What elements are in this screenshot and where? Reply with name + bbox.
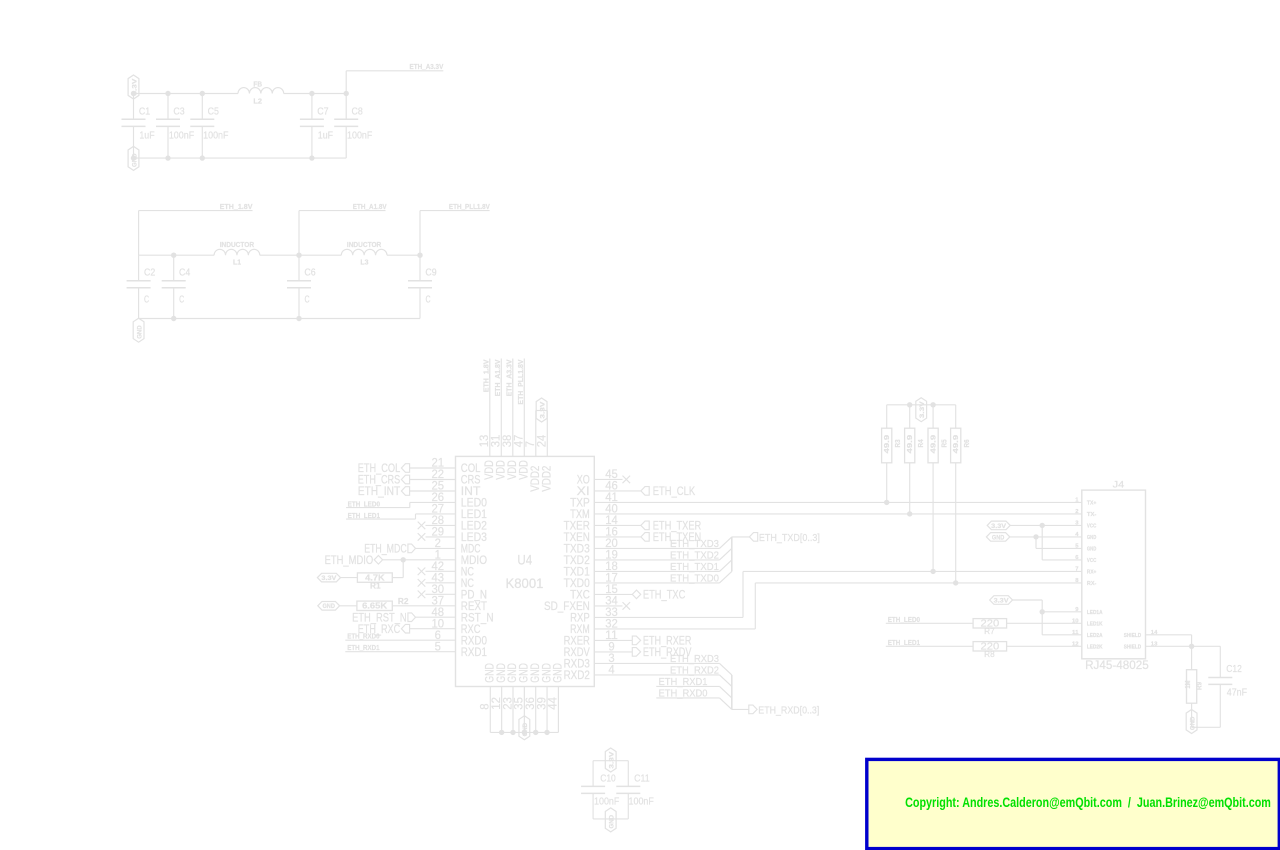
svg-text:49.9: 49.9 [905,435,914,454]
svg-text:3.3V: 3.3V [991,523,1007,530]
svg-text:ETH_RXD1: ETH_RXD1 [659,676,708,688]
junction dot C5 top [200,91,205,96]
svg-text:GND: GND [519,663,531,683]
resistor R5 49.9 (vertical) [932,405,934,428]
wire ETH_1.8V stub [139,210,253,212]
junction dot C3 top [165,91,170,96]
capacitor C12 47nF [1208,677,1232,679]
svg-text:ETH_RXER: ETH_RXER [643,636,692,648]
svg-text:R3: R3 [893,439,902,447]
junction dot C8 top [344,91,349,96]
junction dot rail R5 [930,402,935,407]
svg-text:C5: C5 [208,106,219,118]
svg-text:TXD3: TXD3 [564,544,590,556]
wire 3.3V flag to R1 [341,577,358,579]
junction dot VCC branch [1040,523,1045,528]
svg-text:COL: COL [461,463,481,475]
wire ETH_RXD0 with local label and bus entry [656,697,719,699]
junction dot C5 bottom [200,155,205,160]
svg-text:ETH_RXD0: ETH_RXD0 [347,632,379,641]
svg-text:LED2A: LED2A [1087,633,1103,639]
svg-text:INT: INT [461,486,481,498]
svg-text:GND: GND [530,663,542,683]
svg-text:49.9: 49.9 [929,435,938,454]
local label ETH_LED0 wire [886,622,973,624]
svg-text:ETH_RXD1: ETH_RXD1 [347,643,379,652]
wire R8 to J4 pin12 LED2K [1007,645,1082,647]
capacitor C3 100nF [167,94,169,120]
svg-text:TX-: TX- [1087,512,1097,518]
junction dot R4 to TXM [907,511,912,516]
wire GND flag to R2 [340,605,357,607]
svg-text:49.9: 49.9 [951,435,960,454]
bus ETH_RXD vertical segment [731,675,733,710]
svg-text:GND: GND [507,663,519,683]
wire bottom rail filter2 [139,318,420,320]
svg-text:100nF: 100nF [347,129,372,141]
junction dot MDIO to R1 [401,557,406,562]
svg-text:VDD: VDD [507,460,519,480]
power flag 3.3V at J4 LED anodes [990,596,1013,605]
svg-text:47nF: 47nF [1227,686,1247,698]
connector J4 RJ45-48025 body [1082,490,1146,659]
svg-text:RXDV: RXDV [564,647,590,659]
wire GND to J4 pin4 [1010,536,1082,538]
svg-text:J4: J4 [1113,479,1125,489]
svg-text:RJ45-48025: RJ45-48025 [1085,660,1149,672]
capacitor C4 value C [173,255,175,281]
svg-text:RXC: RXC [461,624,481,636]
svg-text:ETH_MDIO: ETH_MDIO [325,555,374,567]
resistor R4 49.9 (vertical) [909,405,911,428]
junction dot LED1A branch [1040,609,1045,614]
svg-text:ETH_RXD3: ETH_RXD3 [670,653,719,665]
svg-text:49.9: 49.9 [882,435,891,454]
wire up to ETH_A1.8V [298,211,300,256]
junction dot GND rail [522,730,527,735]
svg-text:R8: R8 [984,649,995,659]
svg-text:C6: C6 [304,266,315,278]
capacitor C1 1uF [133,94,135,120]
svg-text:ETH_TXD2: ETH_TXD2 [670,549,719,561]
capacitor C8 100nF [345,94,347,120]
svg-text:FB: FB [253,79,262,88]
pin 13 VDD (top) [489,359,491,457]
pin 8 GND (bottom) [489,687,491,733]
svg-text:R2: R2 [398,597,409,606]
svg-text:6.65K: 6.65K [362,602,387,611]
junction dot C7 top [309,91,314,96]
svg-text:GND: GND [1189,716,1196,730]
junction dot R6 to RX- [953,580,958,585]
junction dot C3 bottom [165,155,170,160]
svg-text:ETH_LED1: ETH_LED1 [888,638,920,647]
junction dot R5 to RX+ [930,569,935,574]
wire top rail filter1 right segment [284,93,347,95]
svg-text:VCC: VCC [1087,558,1096,564]
svg-text:R7: R7 [984,626,995,636]
svg-text:C10: C10 [600,773,616,785]
svg-text:SHIELD: SHIELD [1124,633,1141,639]
svg-text:1uF: 1uF [318,129,333,141]
svg-text:100nF: 100nF [169,129,194,141]
svg-text:C: C [179,293,184,305]
junction dot C9 top [417,253,422,258]
svg-text:ETH_TXD0: ETH_TXD0 [670,572,719,584]
svg-text:LED3: LED3 [461,532,487,544]
svg-text:ETH_TXER: ETH_TXER [653,521,702,533]
copyright box [867,759,1280,848]
wire VCC branch to pin6 [1041,525,1043,560]
svg-text:ETH_TXD3: ETH_TXD3 [670,538,719,550]
wire bottom GND rail [490,731,558,733]
svg-text:RXD2: RXD2 [564,670,590,682]
svg-text:K8001: K8001 [506,575,544,591]
svg-text:C8: C8 [352,106,363,118]
svg-text:GND: GND [496,663,508,683]
svg-text:R4: R4 [916,439,925,448]
svg-text:GND: GND [541,663,553,683]
wire top rail C10-C11 [593,760,628,762]
junction dot C6 bottom [296,316,301,321]
wire R7 to J4 pin10 LED1K [1007,622,1082,624]
ferrite bead FB L2 [238,88,284,94]
wire top rail R3-R6 [887,404,956,406]
svg-text:RXD0: RXD0 [461,635,487,647]
svg-text:NC: NC [461,567,474,579]
capacitor C10 100nF [592,761,594,787]
wire bus to ETH_TXD label [732,536,750,538]
svg-text:ETH_PLL1.8V: ETH_PLL1.8V [449,202,490,211]
svg-text:100nF: 100nF [629,796,654,808]
svg-text:TXD0: TXD0 [564,578,590,590]
svg-text:GND: GND [553,663,565,683]
resistor R6 49.9 (vertical) [955,405,957,428]
svg-text:C4: C4 [179,266,190,278]
wire mid rail filter2 segment A [139,254,215,256]
svg-text:C7: C7 [317,106,328,118]
pin 36 GND (bottom) [535,687,537,733]
wire bottom rail filter1 [134,157,347,159]
svg-text:TXD2: TXD2 [564,555,590,567]
svg-text:LED0: LED0 [461,498,487,510]
wire up to ETH_A3.3V [345,71,347,94]
svg-text:R1: R1 [370,581,381,590]
wire ETH_RXD1 with local label and bus entry [656,685,719,687]
svg-text:C12: C12 [1226,663,1242,675]
svg-text:ETH_TXD[0..3]: ETH_TXD[0..3] [759,532,820,544]
svg-text:TXC: TXC [570,590,590,602]
svg-text:C3: C3 [173,106,184,118]
svg-text:RXD3: RXD3 [564,659,590,671]
wire C12 bottom to ground node [1192,726,1221,728]
local label ETH_LED1 wire [886,645,973,647]
svg-text:ETH_CLK: ETH_CLK [653,486,696,498]
ground flag at C10/C11 [605,808,616,832]
junction dot C1 bottom [131,155,136,160]
svg-text:TXD1: TXD1 [564,567,590,579]
pin 24 VDD2 (top) [546,411,548,457]
svg-text:L2: L2 [253,97,262,106]
svg-text:TXER: TXER [564,521,590,533]
svg-text:XO: XO [577,475,590,487]
svg-text:RX+: RX+ [1087,570,1096,576]
svg-text:ETH_A1.8V: ETH_A1.8V [493,359,502,396]
svg-text:ETH_A3.3V: ETH_A3.3V [504,359,513,396]
svg-text:MDC: MDC [461,544,481,556]
capacitor C6 value C [298,255,300,281]
wire joining VDD2 pins 7 and 24 [536,410,548,412]
svg-text:ETH_TXC: ETH_TXC [643,590,685,602]
junction dot top rail at C1 [131,91,136,96]
svg-text:XI: XI [577,486,590,498]
wire up to ETH_PLL1.8V [419,211,421,256]
svg-text:1uF: 1uF [139,129,154,141]
pin 44 GND (bottom) [557,687,559,733]
junction dot rail R4 [907,402,912,407]
svg-text:VCC: VCC [1087,524,1096,530]
svg-text:3.3V: 3.3V [609,751,616,769]
svg-text:ETH_RXD[0..3]: ETH_RXD[0..3] [758,705,819,717]
svg-text:RXP: RXP [570,613,590,625]
wire mid rail filter2 segment B [260,254,342,256]
svg-text:TXEN: TXEN [564,532,590,544]
svg-text:INDUCTOR: INDUCTOR [220,240,255,249]
svg-text:R6: R6 [962,439,971,447]
svg-text:NC: NC [461,578,474,590]
svg-text:GND: GND [322,603,335,610]
svg-text:LED2K: LED2K [1087,645,1103,651]
svg-text:C11: C11 [634,773,650,785]
resistor R3 49.9 (vertical) [886,405,888,428]
pin 47 VDD (top) [523,359,525,457]
junction dot shield node [1189,644,1194,649]
svg-text:ETH_CRS: ETH_CRS [358,475,401,487]
svg-text:CRS: CRS [461,475,481,487]
svg-text:GND: GND [992,534,1005,541]
svg-text:ETH_RXD2: ETH_RXD2 [670,664,719,676]
svg-text:C: C [425,293,430,305]
wire top rail filter1 left segment [134,93,239,95]
inductor L3 [341,249,387,255]
bus ETH_TXD vertical segment [731,537,733,572]
svg-text:TX+: TX+ [1087,501,1096,507]
svg-text:ETH_LED1: ETH_LED1 [348,511,380,520]
svg-text:C: C [144,293,149,305]
wire branch to J4 pin9 LED1A [1042,611,1082,613]
junction dot C7 bottom [309,155,314,160]
svg-text:LED1K: LED1K [1087,622,1103,628]
power flag 3.3V at J4 VCC [987,521,1010,530]
junction dot GND rail [499,730,504,735]
pin 7 VDD2 (top) [535,411,537,457]
power flag 3.3V at C10/C11 [605,748,616,772]
ground flag at J4 GND [986,533,1009,542]
capacitor C5 100nF [201,94,203,120]
svg-text:LED1A: LED1A [1087,610,1103,616]
wire J4 pin14 SHIELD [1146,634,1192,636]
svg-text:VDD2: VDD2 [530,466,542,492]
wire J4 pin13 SHIELD [1146,645,1192,647]
svg-text:ETH_1.8V: ETH_1.8V [220,202,253,211]
junction dot GND rail [510,730,515,735]
svg-text:GND: GND [1087,535,1096,541]
svg-text:VDD: VDD [484,460,496,480]
resistor R9 1M (vertical) [1191,646,1193,669]
ground flag at R2 [318,602,340,611]
resistor R1 4.7K [357,573,392,582]
svg-text:GND: GND [522,723,529,737]
ground flag filter2 [133,318,144,342]
power flag 3.3V (filter 1 input) [128,75,139,99]
svg-text:100nF: 100nF [594,796,619,808]
bus label ETH_RXD[0..3] [749,705,757,714]
wire bus to ETH_RXD label [732,708,749,710]
svg-text:C1: C1 [139,106,150,118]
wire branch to J4 pin11 LED2A [1042,634,1082,636]
junction dot C6 top [296,253,301,258]
resistor R7 220 [973,619,1007,628]
svg-text:C2: C2 [144,266,155,278]
svg-text:C: C [304,293,309,305]
junction dot GND rail [533,730,538,735]
svg-text:MDIO: MDIO [461,555,487,567]
svg-text:TXM: TXM [570,509,590,521]
svg-text:2: 2 [1075,509,1078,515]
svg-text:ETH_LED0: ETH_LED0 [348,499,380,508]
wire shield node to C12 [1192,645,1221,647]
svg-text:LED2: LED2 [461,521,487,533]
svg-text:3.3V: 3.3V [919,400,926,418]
wire 3.3V to J4 pin3 [1010,524,1082,526]
IC U4 K8001 body [456,456,595,686]
bus label ETH_TXD[0..3] [749,533,757,542]
wire GND branch to pin5 [1035,537,1037,549]
svg-text:L1: L1 [233,258,241,267]
svg-text:PD_N: PD_N [461,590,487,602]
svg-text:L3: L3 [360,258,368,267]
svg-text:U4: U4 [517,552,532,568]
svg-text:R5: R5 [939,439,948,447]
pin 38 VDD (top) [512,359,514,457]
svg-text:GND: GND [609,815,616,829]
junction dot GND rail [544,730,549,735]
junction dot C4 bottom [171,316,176,321]
pin 23 GND (bottom) [512,687,514,733]
svg-text:RXER: RXER [564,636,590,648]
svg-text:1M: 1M [1183,681,1192,689]
svg-text:ETH_COL: ETH_COL [358,463,401,475]
svg-text:SD_FXEN: SD_FXEN [544,601,590,613]
svg-text:ETH_PLL1.8V: ETH_PLL1.8V [516,359,525,404]
capacitor C9 value C [419,255,421,281]
resistor R8 220 [973,642,1007,651]
svg-text:RXD1: RXD1 [461,647,487,659]
svg-text:3.3V: 3.3V [321,575,337,582]
power flag 3.3V at R1 [317,573,340,582]
svg-text:GND: GND [131,153,138,167]
pin 31 VDD (top) [500,359,502,457]
junction dot GND branch [1033,534,1038,539]
ground flag below chip [519,716,530,740]
pin 12 GND (bottom) [501,687,503,733]
svg-text:100nF: 100nF [203,129,228,141]
svg-text:TXP: TXP [570,498,590,510]
svg-text:ETH_A3.3V: ETH_A3.3V [410,62,444,71]
svg-text:SHIELD: SHIELD [1124,645,1141,651]
capacitor C2 value C [138,255,140,281]
wire down from ETH_1.8V [138,211,140,256]
svg-text:GND: GND [485,663,497,683]
svg-text:Copyright: Andres.Calderon@emQ: Copyright: Andres.Calderon@emQbit.com / … [905,795,1271,810]
ground flag at R9/C12 [1186,710,1197,734]
junction dot C4 top [171,253,176,258]
capacitor C11 100nF [627,761,629,787]
svg-text:GND: GND [136,325,143,339]
svg-text:C9: C9 [425,266,436,278]
ground flag filter1 [128,146,139,170]
svg-text:LED1: LED1 [461,509,487,521]
svg-text:3.3V: 3.3V [539,401,546,419]
svg-text:ETH_RXD0: ETH_RXD0 [659,687,708,699]
capacitor C7 1uF [311,94,313,120]
inductor L1 [214,249,260,255]
svg-text:ETH_LED0: ETH_LED0 [888,615,920,624]
svg-text:R9: R9 [1195,682,1204,690]
svg-text:RXM: RXM [570,624,590,636]
svg-text:INDUCTOR: INDUCTOR [347,240,382,249]
svg-text:44: 44 [546,697,560,710]
svg-text:ETH_MDC: ETH_MDC [364,544,406,556]
svg-text:VDD2: VDD2 [542,466,554,492]
svg-text:3.3V: 3.3V [994,597,1010,604]
wire mid rail filter2 segment C [387,254,420,256]
svg-text:RST_N: RST_N [461,612,494,624]
wire MDIO down to R1 [402,560,404,578]
pin 35 GND (bottom) [523,687,525,733]
wire bottom rail C10-C11 [593,818,628,820]
svg-text:RX-: RX- [1087,581,1097,587]
svg-text:ETH_INT: ETH_INT [358,486,400,498]
svg-text:REXT: REXT [461,601,487,613]
svg-text:24: 24 [535,434,549,447]
junction dot R3 to TXP [884,500,889,505]
svg-text:ETH_RST_N: ETH_RST_N [352,612,407,624]
svg-text:7: 7 [1075,566,1078,572]
resistor R2 6.65K [357,601,392,610]
power flag 3.3V at R3-R6 rail [916,398,927,422]
svg-text:GND: GND [1087,547,1096,553]
power flag 3.3V above VDD2 pins [536,398,547,422]
svg-text:VDD: VDD [496,460,508,480]
svg-text:ETH_A1.8V: ETH_A1.8V [353,202,387,211]
svg-text:ETH_1.8V: ETH_1.8V [481,359,490,392]
wire 3.3V to LED anode branch [1013,599,1043,601]
svg-text:ETH_TXD1: ETH_TXD1 [670,561,719,573]
pin 39 GND (bottom) [546,687,548,733]
svg-text:VDD: VDD [519,460,531,480]
